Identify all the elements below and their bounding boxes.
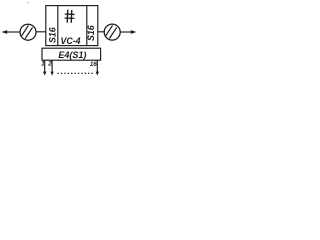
label S16 (left fuse) [48, 27, 58, 43]
component box VC-4 outline [46, 6, 98, 46]
svg-text:E4(S1): E4(S1) [58, 50, 86, 60]
dotted continuation (pins 3..15) [58, 73, 93, 74]
internal divider (left cell) [57, 6, 59, 46]
svg-text:16: 16 [90, 61, 97, 68]
arrow pin 1 [43, 72, 46, 76]
pin number 2 [47, 61, 52, 68]
wire pin 2 [51, 60, 53, 73]
wire (right lead-out) [120, 31, 132, 33]
pin number 16 [90, 61, 97, 68]
label S16 (right fuse) [86, 25, 96, 41]
label E4(S1) [58, 50, 86, 60]
lighting symbol (grid #) [64, 10, 74, 23]
wire (left lead-in) [5, 31, 20, 33]
wire (VC-4 box to right lamp) [98, 31, 105, 33]
wire pin 1 [44, 60, 46, 73]
wire (left lamp to VC-4 box) [36, 31, 46, 33]
svg-text:S16: S16 [86, 25, 96, 41]
svg-text:1: 1 [41, 61, 45, 68]
pin number 1 [41, 61, 45, 68]
lamp (left bulb symbol) [20, 24, 36, 40]
svg-text:S16: S16 [48, 27, 58, 43]
lamp (right bulb symbol) [104, 24, 120, 40]
label VC-4 [60, 36, 80, 46]
arrow (right, pointing off-page) [131, 30, 137, 34]
component box E4(S1) outline [42, 48, 101, 60]
arrow pin 2 [50, 72, 53, 76]
wire pin 16 [96, 60, 98, 73]
speck (scan artifact) [28, 2, 29, 3]
arrow (left, pointing off-page) [2, 30, 8, 34]
arrow pin 16 [96, 72, 99, 76]
internal divider (right cell) [86, 6, 88, 46]
svg-text:VC-4: VC-4 [60, 36, 80, 46]
svg-text:2: 2 [47, 61, 52, 68]
